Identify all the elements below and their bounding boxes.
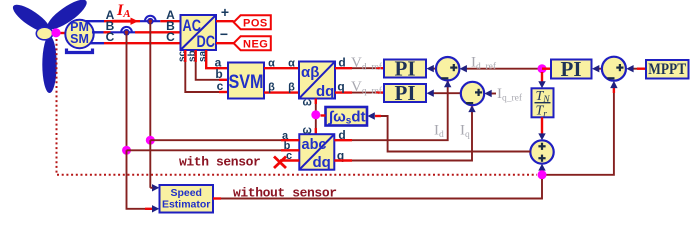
wire MPPT into S3 (626, 65, 646, 72)
block integrator (326, 107, 368, 127)
controller PI2 (384, 81, 426, 105)
dotted with-sensor link (57, 39, 538, 175)
wire node to TN block (538, 72, 545, 88)
modulator U2 SVM (228, 63, 264, 99)
wire speed into S4 bottom (538, 164, 545, 172)
wire omega vertical (315, 99, 317, 135)
wire S4 out to integrator (368, 112, 531, 151)
junction dot omega node (311, 110, 320, 119)
generator PMSM circle (65, 20, 93, 48)
wire U3 q out to PI2 (335, 91, 352, 93)
shaft node (magenta dot) (51, 28, 60, 37)
svg-text:Speed: Speed (170, 187, 202, 199)
phase B wire (92, 31, 181, 33)
transform U4 abc/dq (299, 134, 334, 171)
svg-text:without sensor: without sensor (233, 186, 337, 201)
wire U3 d out to PI1 (335, 67, 352, 69)
transform U3 alphabeta/dq (299, 62, 335, 101)
svg-text:ω: ω (303, 97, 312, 109)
svg-text:Estimator: Estimator (162, 199, 210, 211)
wire sensor A to speed estimator (150, 140, 159, 191)
svg-text:abc: abc (302, 137, 327, 153)
wire PI3 out to node (542, 67, 551, 69)
svg-text:dq: dq (313, 154, 331, 171)
current arrow I_A (112, 2, 138, 25)
svg-text:αβ: αβ (301, 64, 319, 81)
wire estimator out to speed node (213, 179, 542, 199)
wire U4 q out feedback to S2 (334, 105, 475, 160)
svg-text:ω: ω (303, 124, 312, 136)
phase A wire (86, 20, 181, 22)
svg-text:α: α (288, 58, 295, 70)
wire sum3 to PI3 (592, 65, 602, 72)
wire sc to SVM c (185, 50, 228, 92)
svg-text:q: q (337, 80, 344, 94)
phase C wire (90, 42, 181, 44)
wire SVM alpha (264, 67, 299, 69)
svg-text:NEG: NEG (243, 38, 268, 50)
POS stub wire (216, 20, 234, 22)
svg-text:C: C (106, 30, 115, 44)
wire sum2 to PI2 (427, 90, 462, 97)
svg-text:C: C (166, 30, 175, 44)
shaft link wire (58, 32, 66, 34)
svg-text:+: + (221, 4, 229, 20)
svg-text:with sensor: with sensor (179, 155, 260, 170)
svg-text:PI: PI (395, 81, 416, 105)
wire speed feedback into S3 bottom (546, 81, 618, 175)
junction dot speed node (538, 170, 547, 179)
wire c stub U4 (280, 159, 299, 161)
summing junction S1 (436, 57, 459, 80)
junction dot Id_ref node (538, 64, 547, 73)
turbine hub (36, 27, 52, 40)
svg-text:d: d (338, 56, 345, 70)
block speed estimator (160, 185, 214, 213)
wire sb to SVM b (196, 50, 228, 80)
svg-text:dq: dq (316, 83, 334, 100)
summing junction S3 (602, 57, 626, 81)
block TN/Tr (532, 88, 554, 119)
wire Iq_ref into S2 (484, 90, 496, 97)
current sensor CT B (121, 27, 132, 36)
NEG flag (234, 36, 271, 50)
svg-text:SVM: SVM (229, 72, 264, 93)
junction dot sensor A node (146, 136, 155, 145)
wire a into U4 (150, 139, 299, 141)
sensor A measurement wire (149, 23, 151, 140)
svg-text:SM: SM (70, 32, 89, 46)
wire Id_ref into S1 (460, 65, 542, 72)
svg-text:POS: POS (243, 17, 268, 29)
svg-text:β: β (288, 82, 295, 94)
svg-text:PI: PI (561, 57, 582, 81)
svg-text:DC: DC (197, 32, 216, 51)
wire sensor B to speed estimator (127, 150, 160, 212)
controller PI3 (551, 57, 592, 81)
svg-text:−: − (220, 26, 228, 42)
svg-text:MPPT: MPPT (648, 61, 687, 78)
wire TN block to S4 top (538, 117, 545, 140)
summing junction S2 (461, 82, 484, 105)
svg-text:β: β (268, 82, 275, 94)
current sensor CT A (145, 16, 156, 25)
svg-text:α: α (268, 58, 275, 70)
converter U1 AC/DC (181, 15, 217, 51)
POS flag (234, 15, 271, 29)
generator mount bracket (67, 49, 93, 53)
wire sa to SVM a (206, 50, 228, 68)
junction dot sensor B node (122, 146, 131, 155)
controller PI1 (384, 57, 426, 81)
block MPPT (646, 60, 689, 79)
NEG stub wire (216, 42, 234, 44)
no-connect X on c (274, 157, 286, 169)
svg-text:c: c (217, 79, 224, 93)
wire integrator out to omega node (321, 114, 326, 116)
summing junction S4 (530, 140, 553, 163)
wire sum1 to PI1 (427, 65, 437, 72)
svg-text:PI: PI (395, 57, 416, 81)
wind turbine blades (9, 0, 90, 93)
wire SVM beta (264, 91, 299, 93)
wire U4 d out feedback to S1 (334, 80, 451, 140)
wire b into U4 (127, 149, 300, 151)
sensor B measurement wire (126, 34, 128, 150)
